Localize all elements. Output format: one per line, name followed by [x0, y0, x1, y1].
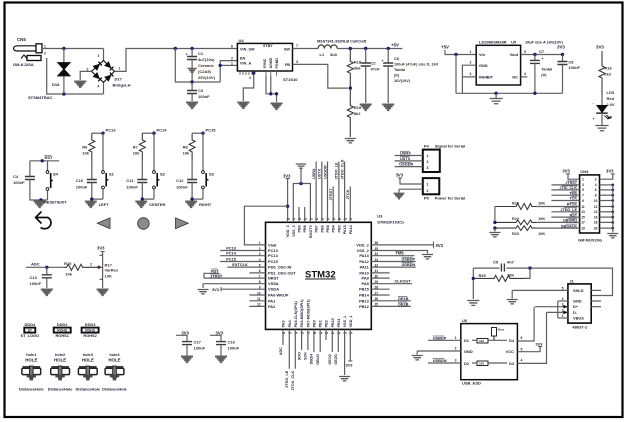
mounting hole hole4 — [105, 366, 124, 380]
wire rail to C1 area drop — [175, 49, 220, 83]
svg-text:R15: R15 — [64, 261, 72, 266]
svg-text:GM-KJ2SA: GM-KJ2SA — [13, 62, 34, 67]
wire J1 right stub1 — [591, 289, 601, 291]
U3 top pin number 40 — [332, 217, 336, 221]
svg-text:43: 43 — [315, 217, 319, 221]
svg-text:3V3: 3V3 — [212, 287, 220, 292]
svg-text:C13: C13 — [30, 275, 38, 280]
LED LD5 — [596, 106, 612, 120]
svg-text:PA2: PA2 — [268, 304, 276, 309]
wire U3 PA0 stub — [249, 294, 265, 296]
U3 right pin number 25 — [375, 303, 379, 307]
wire R20 left drop — [494, 207, 496, 223]
capacitor C4 — [25, 177, 35, 180]
U4 pin name VIN_A — [240, 62, 251, 66]
CN4 pin 4 — [595, 183, 597, 187]
svg-text:PB4: PB4 — [332, 224, 336, 232]
U3 top pin number 46 — [298, 217, 302, 221]
svg-text:CENTER: CENTER — [149, 202, 165, 207]
hole2 value DistanceHole — [48, 387, 73, 392]
P5 pin2 — [427, 189, 429, 193]
svg-text:3V3: 3V3 — [606, 169, 614, 174]
svg-text:3V3: 3V3 — [346, 363, 354, 368]
resistor R16 — [599, 51, 605, 95]
svg-text:47nF: 47nF — [371, 67, 381, 72]
svg-text:100nF: 100nF — [13, 180, 25, 185]
svg-text:2: 2 — [470, 61, 472, 65]
svg-text:EXTCLK: EXTCLK — [232, 262, 248, 267]
svg-text:1: 1 — [470, 50, 472, 54]
junction dot RST bottom — [39, 198, 42, 201]
svg-text:LD5: LD5 — [607, 90, 615, 95]
net label OE2G rotated — [334, 354, 338, 365]
svg-text:D+: D+ — [573, 304, 579, 309]
svg-text:100: 100 — [479, 339, 484, 343]
net label JTRST rotated — [329, 188, 333, 201]
U3 top pin number 45 — [304, 217, 308, 221]
svg-text:U5: U5 — [511, 40, 517, 45]
ground below C6 — [382, 105, 394, 111]
svg-text:12: 12 — [594, 205, 598, 209]
wire J1 D+ — [535, 306, 568, 308]
CN4 DBGRQ overline — [568, 217, 578, 219]
net label JTCK_CLK rotated — [291, 370, 295, 390]
svg-text:10k: 10k — [65, 272, 72, 277]
DDD2 value — [55, 333, 69, 338]
junction dot C1 rail 2 — [190, 47, 193, 50]
junction dot PC14 — [152, 132, 155, 135]
U3 left pin name PA1 — [268, 298, 276, 303]
net label ADC — [31, 262, 40, 267]
U3 top stub pin45 — [304, 207, 306, 222]
U3 right pin number 26 — [375, 297, 379, 301]
U3 bottom pin number 14 — [288, 331, 292, 335]
svg-text:10k: 10k — [133, 151, 140, 156]
C11 designator — [126, 178, 134, 183]
C12 value — [176, 185, 188, 190]
D18 value STSM4TRAC — [28, 95, 53, 100]
wire PA9 stub — [371, 277, 389, 279]
wire C2 top lead — [365, 49, 367, 64]
wire J1 GND — [558, 300, 568, 302]
R17 value 10K — [105, 274, 112, 279]
ground below S1 — [85, 202, 97, 208]
svg-text:C17: C17 — [194, 340, 202, 345]
net label SDO rotated — [297, 352, 301, 360]
wire R6 to C10 — [91, 161, 93, 180]
U3 left pin name VSSA — [268, 281, 279, 286]
junction dot PC13 — [101, 132, 104, 135]
C1 value line1 — [198, 57, 215, 62]
DDD3 inner text — [85, 329, 96, 333]
svg-text:VSS_1: VSS_1 — [343, 316, 347, 327]
wire VDD_3 to 3V3 — [287, 179, 289, 223]
svg-text:4: 4 — [521, 359, 523, 363]
wire CN4 left row RTCK — [536, 206, 579, 208]
svg-text:USB_ESD: USB_ESD — [462, 380, 481, 385]
J1 value 48037-2 — [572, 325, 587, 330]
ground below R19 — [345, 139, 356, 143]
wire RST bracket — [204, 273, 219, 278]
wire CN4 left row DBGRQ — [536, 221, 579, 223]
junction dot U4 pad — [252, 71, 255, 74]
logo box DDD2 — [54, 328, 71, 333]
net label SCK rotated — [304, 352, 308, 360]
svg-text:NRST: NRST — [268, 276, 279, 281]
capacitor C5 — [501, 264, 504, 272]
svg-text:PA14: PA14 — [349, 224, 353, 234]
junction dot R23 left — [493, 226, 496, 229]
wire R16 to LED — [601, 95, 603, 106]
switch S1 — [102, 171, 109, 189]
3V3 tick CN4 right — [611, 173, 615, 175]
svg-text:100: 100 — [479, 362, 484, 366]
svg-text:U6: U6 — [462, 318, 468, 323]
svg-text:5: 5 — [524, 50, 526, 54]
net label DB1G rotated — [316, 354, 320, 365]
U3 right pin name VDD_2 — [356, 242, 369, 247]
svg-text:100nF: 100nF — [126, 185, 138, 190]
wire CN4 right row y217.1 — [600, 216, 613, 218]
svg-text:1: 1 — [427, 154, 429, 158]
wire S4 top — [47, 161, 49, 171]
U3 bottom pin number 18 — [313, 331, 317, 335]
wire PB12 OE2B — [371, 305, 411, 307]
svg-text:GND: GND — [464, 349, 473, 354]
wire J1 D- — [547, 311, 568, 313]
svg-text:JTCK: JTCK — [346, 189, 350, 199]
R17 designator — [105, 263, 113, 268]
bridge pin 2 number — [87, 68, 89, 72]
svg-text:PC15: PC15 — [206, 128, 217, 133]
svg-text:25V(10V): 25V(10V) — [198, 75, 216, 80]
svg-text:C4: C4 — [13, 174, 19, 179]
svg-text:PC14: PC14 — [157, 128, 168, 133]
resistor R7 — [139, 133, 145, 160]
U5 pin name Vin — [479, 52, 486, 57]
svg-text:PB7: PB7 — [315, 225, 319, 232]
svg-text:+: + — [186, 53, 188, 57]
CN4 TCK overline — [571, 196, 577, 198]
resistor R8 — [189, 133, 195, 160]
mounting hole hole1 — [22, 366, 41, 380]
3V3 tick pot — [101, 251, 105, 253]
ground LDO rail — [490, 99, 503, 104]
net label JTDO_LE rotated — [335, 162, 339, 180]
U6 designator — [462, 318, 468, 323]
junction dot CN4 right y195.2 — [611, 194, 614, 197]
U3 top pin number 48 — [286, 217, 290, 221]
wire J1 gnd-vbus vertical — [557, 301, 559, 318]
U6 pin6 number — [521, 336, 523, 340]
net label RTCK CN4 — [567, 203, 578, 207]
wire PA3 ADC stub — [282, 329, 284, 345]
junction dot RST — [41, 159, 44, 162]
junction dot CN4 right y211.8 — [611, 210, 614, 213]
C16 designator — [228, 340, 236, 345]
svg-text:LD2980SM33R: LD2980SM33R — [479, 40, 507, 45]
wire J1 right stub2 — [591, 300, 601, 302]
net label 3V3 C17 — [181, 330, 189, 335]
wire CN4 right bus — [612, 185, 614, 233]
CN4 TMS overline — [571, 190, 577, 192]
wire bridge bottom corner — [103, 82, 105, 94]
resistor R18 — [347, 49, 353, 89]
P5 name Power for Serial — [435, 196, 465, 201]
D17 value BridgeLH — [113, 83, 131, 88]
svg-text:R18: R18 — [354, 60, 362, 65]
CN4 pin 15 — [581, 215, 585, 219]
svg-text:38: 38 — [343, 217, 347, 221]
U3 left pin name PD0_OSC-IN — [268, 265, 292, 270]
wire bridge pin2 to ground — [80, 71, 91, 80]
center circle icon — [138, 218, 150, 230]
svg-text:PA15: PA15 — [343, 225, 347, 234]
svg-text:JTDO_LE: JTDO_LE — [560, 208, 577, 212]
ground below LED — [595, 126, 608, 131]
svg-text:100nF: 100nF — [198, 94, 210, 99]
svg-text:OE1G: OE1G — [328, 354, 332, 365]
wire JTRST stub — [332, 187, 334, 223]
U6 internal wire bot2 — [488, 362, 507, 364]
svg-text:Tantal: Tantal — [394, 68, 405, 72]
net label TMS — [396, 251, 405, 256]
U3 right pin number 36 — [375, 241, 379, 245]
wire pulldown gnd — [494, 228, 496, 231]
svg-text:S1: S1 — [109, 172, 115, 177]
microcontroller U3 STM32 body — [266, 222, 372, 329]
net label TMS CN4 — [569, 191, 577, 195]
net label RST — [45, 155, 54, 160]
3V3 tick VDDA — [220, 287, 222, 291]
C3 designator — [198, 88, 204, 93]
junction dot U5 vin — [454, 53, 457, 56]
svg-text:JTDI_CLK: JTDI_CLK — [559, 186, 577, 190]
svg-text:U3: U3 — [377, 214, 383, 219]
junction dot C5 right — [528, 266, 531, 269]
net label 3V3 CN4 right — [606, 169, 614, 174]
connector P4 body — [423, 150, 440, 172]
U3 bottom pin number 19 — [319, 331, 323, 335]
svg-text:10K: 10K — [538, 232, 545, 236]
hole1 HOLE label — [25, 358, 37, 363]
J1 pin1 number — [562, 314, 564, 318]
svg-text:USRX: USRX — [312, 168, 316, 179]
J1 pin name D- — [573, 310, 578, 315]
junction dot gnd rail 1 — [494, 92, 497, 95]
svg-text:-: - — [593, 100, 595, 105]
U4 value ST1S10 — [283, 77, 298, 82]
CN4 pin 3 — [582, 183, 584, 187]
J1 D+ arrow — [563, 305, 568, 309]
CN5 pin 1 number — [44, 45, 46, 49]
resistor R19 — [347, 88, 353, 137]
svg-text:JTDO_LE: JTDO_LE — [335, 162, 339, 180]
wire CN4 right row y206.5 — [600, 206, 613, 208]
C6 value line1 — [394, 63, 439, 67]
svg-text:6: 6 — [521, 336, 523, 340]
R6 designator — [82, 145, 88, 150]
DDD2 inner text — [57, 329, 68, 333]
USGDR overline — [399, 161, 411, 163]
U4 designator — [239, 38, 245, 43]
U3 left pin name NRST — [268, 276, 279, 281]
svg-text:DistanceHole: DistanceHole — [102, 387, 127, 392]
svg-text:47: 47 — [292, 217, 296, 221]
U4 pin7 number — [296, 44, 298, 48]
U3 bottom pin number 23 — [343, 331, 347, 335]
junction dot CN4 right y217.1 — [611, 216, 614, 219]
net label 3V3 P5 — [396, 173, 404, 178]
CN4 DBGACK overline — [566, 223, 577, 225]
switch S4 label — [53, 172, 59, 177]
U6 pin2 number — [455, 347, 457, 351]
svg-text:48037-2: 48037-2 — [572, 325, 587, 330]
junction dot R25 left — [472, 277, 475, 280]
resistor R15 — [64, 264, 100, 270]
junction dot FB divider — [349, 86, 352, 89]
junction dot gnd rail 2 — [533, 92, 536, 95]
USBDN U3 overline — [402, 262, 414, 264]
wire VDD_2 to 3V3 — [371, 244, 433, 246]
svg-text:C2: C2 — [371, 61, 377, 66]
U3 part number — [377, 220, 405, 225]
svg-text:VSSA: VSSA — [268, 281, 279, 286]
wire LED cathode to ground — [601, 113, 603, 125]
U3 top pin name BOOT0 — [309, 225, 313, 238]
svg-text:PB14: PB14 — [359, 293, 370, 298]
svg-text:2: 2 — [44, 52, 46, 56]
svg-text:S2: S2 — [160, 172, 166, 177]
R19 value — [354, 111, 361, 116]
wire PC13 top — [92, 132, 103, 134]
wire bottom stub OE1G — [331, 329, 333, 352]
svg-text:19: 19 — [581, 226, 585, 230]
R23 value — [538, 232, 545, 236]
wire CN4 left row RST — [551, 216, 579, 218]
svg-text:PB12: PB12 — [359, 304, 370, 309]
CN4 RST overline — [571, 212, 577, 214]
U5 pin name GND — [479, 63, 488, 68]
svg-text:VCC: VCC — [506, 349, 514, 354]
svg-text:13: 13 — [282, 331, 286, 335]
svg-text:FB: FB — [285, 63, 290, 67]
wire CN4 right row y222.4 — [600, 221, 613, 223]
junction dot C7 top — [533, 53, 536, 56]
svg-text:HOLE: HOLE — [108, 358, 120, 363]
wire C5 top net right — [507, 268, 613, 295]
wire U6 gnd drop — [416, 351, 418, 355]
svg-text:C12: C12 — [176, 178, 184, 183]
LED plus mark — [593, 117, 595, 121]
CN4 value GM MUX20G — [578, 238, 602, 243]
C2 value — [371, 67, 381, 72]
wire USBDP to U6 — [428, 339, 461, 341]
net label DB2H rotated — [310, 354, 314, 365]
wire P5 gnd drop — [398, 189, 400, 192]
bridge pin 1 number — [119, 67, 121, 71]
wire C1 top lead — [191, 49, 193, 57]
net label JTRST CN4 — [565, 181, 577, 185]
LDO ground rail — [456, 92, 563, 94]
svg-text:CN5: CN5 — [17, 37, 26, 42]
ground below pot — [97, 290, 109, 296]
junction dot PC14 bottom — [141, 197, 144, 200]
wire U3 PC13 — [220, 250, 265, 252]
P5 designator — [424, 196, 430, 201]
switch S2 — [153, 171, 160, 189]
bridge pin 4 number — [98, 85, 100, 89]
svg-text:DistanceHole: DistanceHole — [19, 387, 44, 392]
U6 pullup lead — [493, 336, 495, 340]
svg-text:PB3: PB3 — [337, 225, 341, 232]
svg-text:ROHS2: ROHS2 — [83, 333, 97, 338]
svg-text:100nF: 100nF — [76, 185, 88, 190]
U4 STBY overline — [263, 43, 271, 45]
C12 designator — [176, 178, 184, 183]
wire PC14 top — [142, 132, 154, 134]
U3 right pin name PA9 — [362, 276, 370, 281]
svg-text:3V3: 3V3 — [436, 243, 444, 248]
svg-text:100uF (47uF) size D, 16V: 100uF (47uF) size D, 16V — [394, 63, 439, 67]
ground below S4 — [34, 202, 46, 208]
wire S2 drop — [153, 133, 155, 170]
U3 left pin number 8 — [259, 280, 261, 284]
svg-text:PB11: PB11 — [337, 318, 341, 327]
svg-text:40: 40 — [332, 217, 336, 221]
CN4 pin 16 — [594, 215, 598, 219]
wire C6 bottom lead — [387, 66, 389, 103]
P4 pin3 — [427, 166, 429, 170]
svg-text:VBUS: VBUS — [573, 316, 584, 321]
ground below S2 — [135, 202, 147, 208]
svg-text:3V3: 3V3 — [536, 341, 544, 346]
U3 top pin number 47 — [292, 217, 296, 221]
svg-text:PB2: PB2 — [325, 320, 329, 327]
U3 right pin number 31 — [375, 269, 379, 273]
capacitor C8 — [558, 62, 568, 65]
wire U6 D4 to J1 D+ — [517, 307, 534, 341]
hole2 designator — [55, 352, 66, 357]
wire PA11 USBDN — [371, 266, 415, 268]
svg-text:17: 17 — [581, 221, 585, 225]
wire bottom stub SDO — [301, 329, 303, 350]
wire VSSA gnd drop — [202, 284, 204, 288]
wire PA13 TMS — [371, 255, 414, 257]
connector CN5 label — [17, 37, 26, 42]
svg-text:37: 37 — [349, 217, 353, 221]
wire PB15 stub — [371, 288, 389, 290]
svg-text:AGND: AGND — [269, 58, 273, 69]
svg-text:DistanceHole: DistanceHole — [75, 387, 100, 392]
svg-text:3: 3 — [582, 183, 584, 187]
svg-text:4: 4 — [524, 72, 526, 76]
U3 designator — [377, 214, 383, 219]
net label OE1G rotated — [328, 354, 332, 365]
svg-text:PC15: PC15 — [268, 259, 279, 264]
R20 value — [538, 201, 545, 205]
net label 3V3 VDDA — [212, 287, 220, 292]
C11 value — [126, 185, 138, 190]
U3 bottom pin name PB2 — [325, 320, 329, 327]
svg-text:+: + — [593, 117, 595, 121]
wire USBDN to U6 — [428, 362, 461, 364]
DDD4 designator — [25, 322, 36, 327]
svg-text:RST: RST — [570, 213, 578, 217]
U3 right pin name PB13 — [359, 298, 370, 303]
U5 note size A — [525, 41, 563, 45]
ground below S3 — [185, 202, 197, 208]
